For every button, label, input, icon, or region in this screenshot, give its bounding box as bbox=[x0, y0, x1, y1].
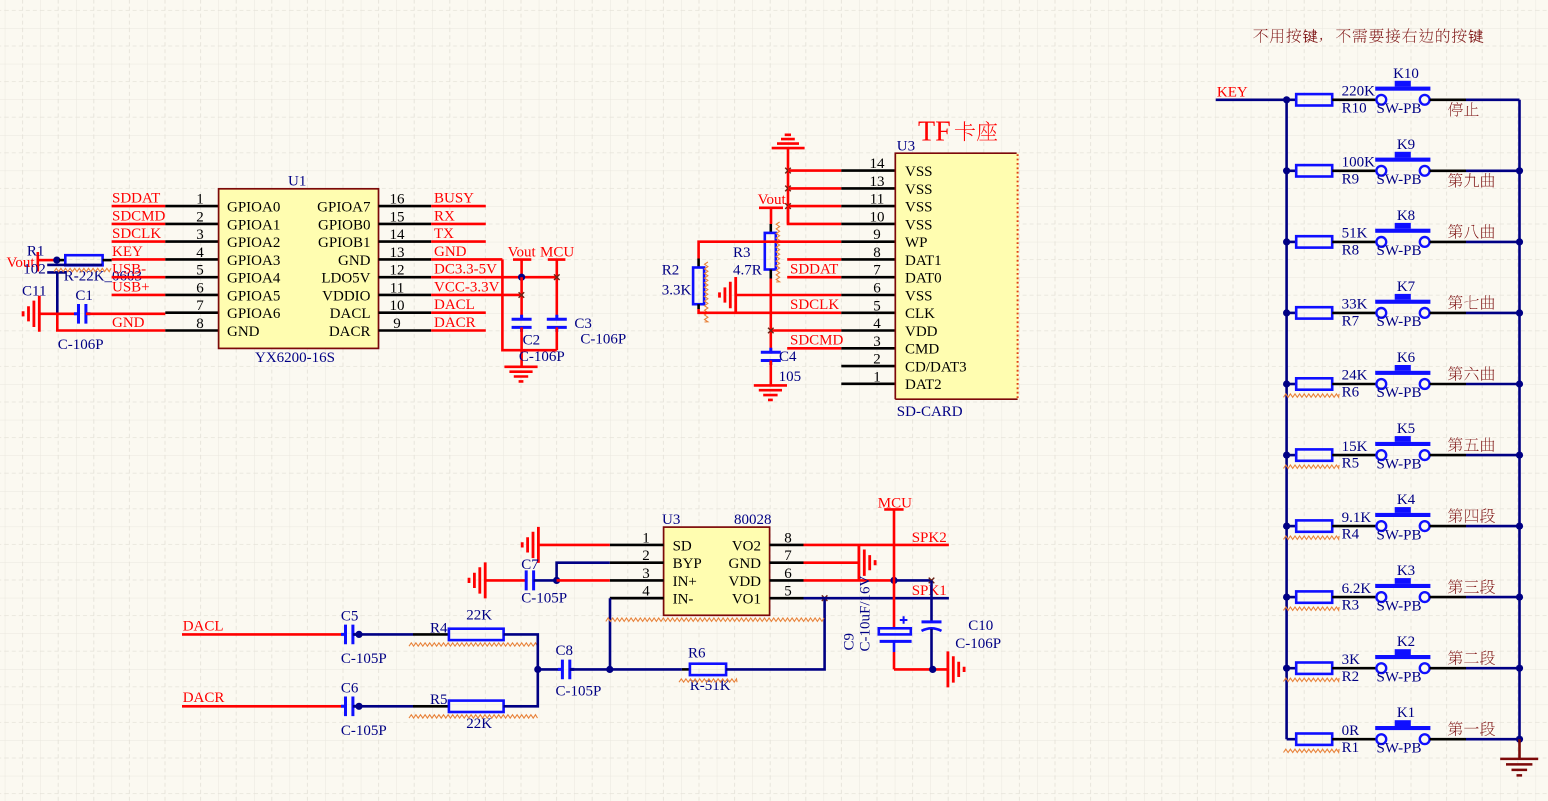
compile squiggle under R6 bbox=[679, 679, 737, 682]
svg-text:SW-PB: SW-PB bbox=[1377, 172, 1422, 188]
svg-text:DAT2: DAT2 bbox=[905, 377, 942, 393]
svg-text:DACL: DACL bbox=[330, 306, 371, 322]
svg-text:K4: K4 bbox=[1397, 492, 1416, 508]
wire VSS pin10 corner bbox=[788, 206, 841, 224]
svg-text:C-105P: C-105P bbox=[341, 651, 387, 667]
wire GND net corner bbox=[57, 314, 165, 331]
wire R2 bottom stub bbox=[697, 304, 700, 309]
svg-text:C-106P: C-106P bbox=[955, 636, 1001, 652]
svg-text:GND: GND bbox=[112, 315, 145, 331]
junction dot C10 bottom bbox=[929, 666, 936, 673]
svg-text:C-106P: C-106P bbox=[580, 331, 626, 347]
junction dot Vout/DC3.3-5V bbox=[518, 274, 525, 281]
chip U1 pin stubs (right) bbox=[379, 206, 432, 330]
svg-text:VSS: VSS bbox=[905, 217, 933, 233]
wire BYP pin2 bbox=[557, 563, 610, 581]
resistor R2 bbox=[1296, 663, 1332, 674]
svg-text:9.1K: 9.1K bbox=[1342, 510, 1372, 526]
svg-text:R5: R5 bbox=[430, 692, 448, 708]
svg-text:6: 6 bbox=[196, 280, 204, 296]
svg-text:R2: R2 bbox=[1342, 669, 1360, 685]
wire net DACR (U1 right) bbox=[431, 329, 486, 332]
resistor R5 bbox=[1296, 449, 1332, 460]
svg-text:SDCMD: SDCMD bbox=[112, 208, 166, 224]
chip U3 amp pin stubs (left) bbox=[610, 545, 664, 598]
svg-text:GND: GND bbox=[434, 244, 467, 260]
wire K4 to right bus bbox=[1430, 525, 1466, 528]
svg-text:GPIOA6: GPIOA6 bbox=[227, 306, 281, 322]
wire R4 to K4 bbox=[1332, 525, 1376, 528]
wire DAT1 pin8 bbox=[787, 258, 841, 261]
ground (sideways, left of C1) bbox=[23, 296, 39, 332]
svg-text:K5: K5 bbox=[1397, 421, 1415, 437]
ground (below C4) bbox=[754, 385, 787, 400]
svg-text:SW-PB: SW-PB bbox=[1377, 101, 1422, 117]
wire bus to R10 bbox=[1287, 99, 1297, 102]
svg-text:K7: K7 bbox=[1397, 279, 1416, 295]
note text 不用按键，不需要接右边的按键 bbox=[1253, 28, 1483, 43]
wire K6 to right bus bbox=[1430, 383, 1466, 386]
label 第五曲 bbox=[1448, 437, 1494, 452]
resistor R5 bbox=[449, 701, 504, 712]
chip U3 SD-CARD pin numbers bbox=[870, 156, 886, 385]
compile squiggle under R5 bbox=[409, 715, 538, 718]
svg-text:C-10uF/16V: C-10uF/16V bbox=[858, 575, 874, 651]
svg-text:DACL: DACL bbox=[434, 297, 475, 313]
label 第四段 bbox=[1448, 508, 1495, 523]
wire Vout stem down to C2 bbox=[520, 277, 523, 319]
wire K8 to right bus bbox=[1430, 241, 1466, 244]
svg-text:VO2: VO2 bbox=[732, 538, 761, 554]
wire K2 to right bus bbox=[1430, 667, 1466, 670]
svg-text:R1: R1 bbox=[27, 244, 45, 260]
compile squiggle under R6 bbox=[1284, 394, 1340, 397]
chip U3 SD-CARD body bbox=[895, 153, 1018, 399]
wire navy segment under R1 bbox=[47, 264, 102, 267]
wire VSS pin6 bbox=[736, 294, 842, 297]
svg-text:GPIOA4: GPIOA4 bbox=[227, 271, 281, 287]
svg-text:Vout: Vout bbox=[508, 244, 537, 260]
svg-text:C4: C4 bbox=[779, 349, 797, 365]
pushbutton K1 SW-PB bbox=[1375, 720, 1430, 744]
svg-text:2: 2 bbox=[196, 209, 204, 225]
resistor R6 bbox=[1296, 378, 1332, 389]
svg-text:C-105P: C-105P bbox=[521, 591, 567, 607]
wire IN+ pin3 bbox=[557, 579, 610, 582]
pushbutton K5 SW-PB bbox=[1375, 436, 1430, 460]
wire WP net (R2 top to pin9) bbox=[699, 242, 842, 259]
label 停止 bbox=[1448, 102, 1479, 117]
noERC cross C10 top bbox=[929, 578, 935, 584]
svg-text:2: 2 bbox=[873, 352, 881, 368]
wire MCU vertical to C9 bbox=[893, 509, 896, 628]
svg-text:15K: 15K bbox=[1342, 439, 1368, 455]
compile squiggle under R2 bbox=[1284, 678, 1340, 681]
svg-text:IN+: IN+ bbox=[673, 574, 697, 590]
svg-text:VDD: VDD bbox=[905, 324, 938, 340]
wire net SDCLK bbox=[112, 240, 166, 243]
noERC cross VO1 junction bbox=[822, 595, 828, 601]
ground (sideways right, amp pin7) bbox=[859, 545, 875, 581]
junction dots left bus bbox=[1283, 96, 1290, 672]
wire net SDCMD bbox=[112, 223, 166, 226]
svg-text:DC3.3-5V: DC3.3-5V bbox=[434, 262, 497, 278]
wire VDD pin4 bbox=[771, 329, 842, 332]
wire C1 to pin7 bbox=[86, 312, 165, 315]
capacitor C9 (polarized) bbox=[879, 628, 912, 641]
svg-text:YX6200-16S: YX6200-16S bbox=[255, 350, 335, 366]
power port Vout (MCU area) bbox=[508, 244, 537, 277]
wire R10 to K10 bbox=[1332, 99, 1376, 102]
compile squiggle under R4 bbox=[1284, 536, 1340, 539]
svg-text:SW-PB: SW-PB bbox=[1377, 456, 1422, 472]
wire navy vertical to C1 node bbox=[56, 272, 59, 313]
resistor R4 bbox=[1296, 520, 1332, 531]
wire TF gnd vertical bbox=[787, 148, 790, 224]
svg-text:K3: K3 bbox=[1397, 563, 1415, 579]
svg-text:R3: R3 bbox=[1342, 598, 1360, 614]
svg-text:8: 8 bbox=[196, 316, 204, 332]
wire net TX (U1 right) bbox=[431, 240, 486, 243]
capacitor C1 bbox=[74, 304, 90, 324]
svg-text:1: 1 bbox=[873, 369, 881, 385]
svg-text:R8: R8 bbox=[1342, 243, 1360, 259]
svg-text:DACR: DACR bbox=[183, 690, 225, 706]
wire C10 top stem bbox=[930, 580, 933, 621]
pushbutton K2 SW-PB bbox=[1375, 649, 1430, 673]
svg-text:USB-: USB- bbox=[112, 262, 146, 278]
svg-text:GPIOA7: GPIOA7 bbox=[317, 200, 371, 216]
svg-text:DAT1: DAT1 bbox=[905, 253, 942, 269]
svg-text:6.2K: 6.2K bbox=[1342, 581, 1372, 597]
compile squiggle under R3 bbox=[1284, 607, 1340, 610]
chip U1 pin stubs (left) bbox=[165, 206, 218, 330]
svg-text:DACR: DACR bbox=[434, 315, 476, 331]
svg-text:GPIOB1: GPIOB1 bbox=[318, 235, 371, 251]
svg-text:R3: R3 bbox=[733, 245, 751, 261]
compile squiggle beside R3 bbox=[776, 222, 779, 282]
svg-text:SDDAT: SDDAT bbox=[112, 191, 160, 207]
svg-text:K2: K2 bbox=[1397, 634, 1415, 650]
svg-text:VDDIO: VDDIO bbox=[322, 288, 370, 304]
wire K1 to right bus bbox=[1430, 738, 1466, 741]
svg-text:U1: U1 bbox=[288, 174, 306, 190]
svg-text:C5: C5 bbox=[341, 609, 359, 625]
resistor R6 bbox=[690, 664, 726, 675]
wire bus to R4 bbox=[1287, 525, 1297, 528]
svg-text:VSS: VSS bbox=[905, 288, 933, 304]
compile squiggle under R1 bbox=[54, 268, 111, 271]
pushbutton K3 SW-PB bbox=[1375, 578, 1430, 602]
wire navy short segment bbox=[47, 271, 66, 274]
svg-text:4.7R: 4.7R bbox=[733, 263, 762, 279]
wire IN- vertical bbox=[609, 598, 612, 669]
svg-text:24K: 24K bbox=[1342, 368, 1368, 384]
wire SDCLK net (R2 to pin5) bbox=[699, 309, 842, 313]
svg-text:K6: K6 bbox=[1397, 350, 1416, 366]
wire SDCMD net pin3 bbox=[787, 347, 841, 350]
svg-text:Vout: Vout bbox=[758, 192, 787, 208]
wire SD pin1 bbox=[538, 544, 609, 547]
title TF卡座 bbox=[918, 117, 951, 148]
pushbutton K6 SW-PB bbox=[1375, 365, 1430, 389]
resistor R1 bbox=[1296, 734, 1332, 745]
wire ladder right bus bbox=[1518, 100, 1521, 739]
compile squiggle beside R2 bbox=[705, 262, 708, 322]
svg-text:22K: 22K bbox=[466, 607, 492, 623]
svg-text:80028: 80028 bbox=[734, 512, 772, 528]
label 第八曲 bbox=[1448, 224, 1494, 239]
svg-text:C8: C8 bbox=[556, 643, 574, 659]
junction dot C6 out bbox=[355, 703, 362, 710]
wire KEY to ladder bbox=[1216, 99, 1287, 102]
wire bus to R8 bbox=[1287, 241, 1297, 244]
svg-text:SDCMD: SDCMD bbox=[790, 333, 844, 349]
junction dot IN- node bbox=[606, 666, 613, 673]
svg-text:IN-: IN- bbox=[673, 592, 694, 608]
noERC cross VDD junction bbox=[768, 328, 774, 334]
svg-text:5: 5 bbox=[873, 298, 881, 314]
svg-text:22K: 22K bbox=[466, 716, 492, 732]
pushbutton K8 SW-PB bbox=[1375, 223, 1430, 247]
resistor R7 bbox=[1296, 307, 1332, 318]
svg-text:VO1: VO1 bbox=[732, 592, 761, 608]
resistor R8 bbox=[1296, 236, 1332, 247]
svg-text:C-105P: C-105P bbox=[556, 684, 602, 700]
ground (sideways, TF pin6) bbox=[720, 277, 736, 313]
svg-text:GPIOB0: GPIOB0 bbox=[318, 217, 371, 233]
label 第九曲 bbox=[1448, 173, 1494, 188]
compile squiggle under R4 bbox=[409, 643, 538, 646]
capacitor C4 bbox=[761, 348, 781, 365]
wire R1 to K1 bbox=[1332, 738, 1376, 741]
svg-text:5: 5 bbox=[196, 263, 204, 279]
resistor R1 bbox=[65, 255, 102, 265]
svg-text:GND: GND bbox=[227, 324, 260, 340]
wire R3 bottom stub bbox=[769, 270, 772, 279]
ground (top of TF, flipped) bbox=[772, 135, 805, 148]
wire VO2 SPK2 net bbox=[804, 544, 949, 547]
wire R3 to K3 bbox=[1332, 596, 1376, 599]
svg-text:14: 14 bbox=[870, 156, 886, 172]
svg-text:KEY: KEY bbox=[1217, 85, 1248, 101]
wire GND pin13 down bbox=[502, 259, 556, 350]
svg-text:R7: R7 bbox=[1342, 314, 1360, 330]
chip U3 amp body bbox=[664, 527, 770, 615]
svg-text:C7: C7 bbox=[521, 557, 539, 573]
wire R2 to K2 bbox=[1332, 667, 1376, 670]
wire R5 to K5 bbox=[1332, 454, 1376, 457]
wire net DACL (U1 right) bbox=[431, 311, 486, 314]
pushbutton K4 SW-PB bbox=[1375, 507, 1430, 531]
svg-text:R4: R4 bbox=[1342, 527, 1360, 543]
capacitor C6 bbox=[341, 697, 357, 717]
svg-text:C6: C6 bbox=[341, 681, 359, 697]
svg-text:SW-PB: SW-PB bbox=[1377, 527, 1422, 543]
chip U1 pin names (left) bbox=[227, 200, 281, 340]
svg-text:SDDAT: SDDAT bbox=[790, 261, 838, 277]
junction dot C5 out bbox=[355, 631, 362, 638]
svg-text:9: 9 bbox=[873, 227, 881, 243]
svg-text:SD-CARD: SD-CARD bbox=[897, 404, 963, 420]
svg-text:C1: C1 bbox=[75, 288, 93, 304]
wire KEY net (R1 to pin4) bbox=[103, 259, 112, 262]
svg-text:VSS: VSS bbox=[905, 200, 933, 216]
svg-text:SDCLK: SDCLK bbox=[112, 226, 161, 242]
svg-text:GPIOA3: GPIOA3 bbox=[227, 253, 280, 269]
capacitor C8 bbox=[558, 660, 574, 680]
label 第一段 bbox=[1448, 721, 1495, 736]
svg-text:3: 3 bbox=[873, 334, 881, 350]
svg-text:C9: C9 bbox=[842, 633, 858, 651]
wire node to C8 bbox=[538, 668, 559, 671]
resistor R10 bbox=[1296, 94, 1332, 105]
svg-text:LDO5V: LDO5V bbox=[321, 271, 370, 287]
svg-text:8: 8 bbox=[873, 245, 881, 261]
wire net BUSY (U1 right) bbox=[431, 205, 486, 208]
svg-text:U3: U3 bbox=[662, 512, 680, 528]
junction dot BYP/IN+ bbox=[553, 577, 560, 584]
svg-text:U3: U3 bbox=[897, 138, 915, 154]
svg-text:BUSY: BUSY bbox=[434, 191, 474, 207]
svg-text:WP: WP bbox=[905, 235, 928, 251]
svg-text:GPIOA0: GPIOA0 bbox=[227, 200, 280, 216]
svg-text:TF: TF bbox=[918, 117, 951, 148]
svg-text:SW-PB: SW-PB bbox=[1377, 243, 1422, 259]
wire R3 top stub bbox=[769, 224, 772, 233]
svg-text:R9: R9 bbox=[1342, 171, 1360, 187]
svg-text:DAT0: DAT0 bbox=[905, 271, 942, 287]
wire R6 to VO1 feedback bbox=[726, 598, 825, 669]
svg-text:K1: K1 bbox=[1397, 705, 1415, 721]
capacitor C3 bbox=[547, 315, 567, 332]
svg-text:SW-PB: SW-PB bbox=[1377, 385, 1422, 401]
svg-text:R4: R4 bbox=[430, 620, 448, 636]
wire DACR net bbox=[182, 705, 342, 708]
pushbutton K10 SW-PB bbox=[1375, 81, 1430, 105]
chip U1 pin numbers (right 16-9) bbox=[390, 192, 406, 332]
wire R9 to K9 bbox=[1332, 170, 1376, 173]
wire net VCC-3.3V (U1 right) bbox=[431, 294, 521, 297]
svg-text:105: 105 bbox=[779, 369, 802, 385]
svg-text:SPK1: SPK1 bbox=[912, 583, 947, 599]
svg-text:MCU: MCU bbox=[540, 244, 574, 260]
wire net USB- bbox=[112, 276, 166, 279]
svg-text:TX: TX bbox=[434, 226, 454, 242]
wire DAT0 pin7 bbox=[787, 276, 841, 279]
svg-text:3: 3 bbox=[196, 227, 204, 243]
junction dot (Vout / R1 node) bbox=[53, 257, 60, 264]
capacitor C2 bbox=[512, 315, 532, 332]
svg-text:C3: C3 bbox=[574, 316, 592, 332]
wire R5 to summing node bbox=[504, 669, 538, 706]
svg-text:SW-PB: SW-PB bbox=[1377, 740, 1422, 756]
chip U3 amp pin names (right) bbox=[729, 538, 762, 607]
wire K3 to right bus bbox=[1430, 596, 1466, 599]
wire bus to R6 bbox=[1287, 383, 1297, 386]
svg-text:VDD: VDD bbox=[729, 574, 762, 590]
svg-text:6: 6 bbox=[873, 281, 881, 297]
wire bus to R1 bbox=[1287, 738, 1297, 741]
wire R1 left stub bbox=[59, 259, 65, 262]
resistor R3 bbox=[1296, 591, 1332, 602]
wire net DC3.3-5V (U1 right) bbox=[431, 276, 557, 279]
wire DACL net bbox=[182, 633, 342, 636]
svg-text:102: 102 bbox=[23, 262, 46, 278]
svg-text:C2: C2 bbox=[523, 332, 541, 348]
wire net GND (U1 right) bbox=[431, 258, 502, 261]
label 第七曲 bbox=[1448, 295, 1494, 310]
svg-text:C10: C10 bbox=[968, 618, 993, 634]
wire K10 to right bus bbox=[1430, 99, 1466, 102]
ground (sideways, C7) bbox=[469, 562, 485, 598]
chip U3 amp pin names (left) bbox=[673, 538, 702, 607]
svg-text:4: 4 bbox=[873, 316, 881, 332]
junction dots right bus bbox=[1516, 167, 1523, 743]
wire R6 to K6 bbox=[1332, 383, 1376, 386]
wire R7 to K7 bbox=[1332, 312, 1376, 315]
label 第六曲 bbox=[1448, 366, 1494, 381]
pushbutton K7 SW-PB bbox=[1375, 294, 1430, 318]
power port MCU (U1 area) bbox=[540, 244, 574, 260]
wire C6 to R5 bbox=[353, 705, 413, 708]
chip U1 pin numbers (left 1-8) bbox=[196, 192, 204, 332]
wire R3 bottom vertical to C4 bbox=[769, 279, 772, 354]
wire MCU stem down to C3 bbox=[555, 260, 558, 320]
svg-text:R1: R1 bbox=[1342, 740, 1360, 756]
wire R2 top stub bbox=[697, 259, 700, 268]
chip U3 amp pin stubs (right) bbox=[770, 545, 804, 598]
svg-text:SW-PB: SW-PB bbox=[1377, 598, 1422, 614]
wire gnd rail C9/C10 bbox=[894, 668, 948, 671]
svg-text:R6: R6 bbox=[1342, 385, 1360, 401]
svg-text:3.3K: 3.3K bbox=[662, 283, 692, 299]
wire C8 to R6 bbox=[570, 668, 682, 671]
compile squiggle under R1 bbox=[1284, 749, 1340, 752]
chip U3 SD-CARD pin names bbox=[905, 164, 967, 393]
svg-text:3K: 3K bbox=[1342, 652, 1361, 668]
chip U1 pin names (right) bbox=[317, 200, 371, 340]
wire C5 to R4 bbox=[353, 633, 413, 636]
C9 plus sign bbox=[900, 616, 908, 624]
svg-text:1: 1 bbox=[196, 192, 204, 208]
wire VO1 SPK1 net bbox=[804, 597, 949, 600]
junction dot VDD/MCU bbox=[890, 577, 897, 584]
wire VSS pin11 bbox=[788, 205, 841, 208]
svg-text:100K: 100K bbox=[1342, 155, 1376, 171]
svg-text:R6: R6 bbox=[688, 646, 706, 662]
svg-text:VSS: VSS bbox=[905, 182, 933, 198]
resistor R3 bbox=[765, 233, 776, 270]
svg-text:R2: R2 bbox=[662, 263, 680, 279]
svg-text:GND: GND bbox=[338, 253, 371, 269]
svg-text:KEY: KEY bbox=[112, 244, 143, 260]
chip U3 amp pin numbers (left) bbox=[642, 530, 650, 599]
wire C3 bottom stem bbox=[555, 327, 558, 350]
chip U1 body bbox=[219, 189, 379, 349]
junction crosses on TF gnd vertical bbox=[785, 168, 791, 209]
wire ground to C1 bbox=[39, 312, 76, 315]
svg-text:VCC-3.3V: VCC-3.3V bbox=[434, 279, 500, 295]
wire net RX (U1 right) bbox=[431, 223, 486, 226]
svg-text:VSS: VSS bbox=[905, 164, 933, 180]
power port MCU (amp) bbox=[878, 496, 912, 512]
svg-text:SW-PB: SW-PB bbox=[1377, 669, 1422, 685]
svg-text:CLK: CLK bbox=[905, 306, 935, 322]
svg-text:K8: K8 bbox=[1397, 208, 1415, 224]
wire net USB+ bbox=[112, 294, 166, 297]
junction dot summing node bbox=[534, 666, 541, 673]
